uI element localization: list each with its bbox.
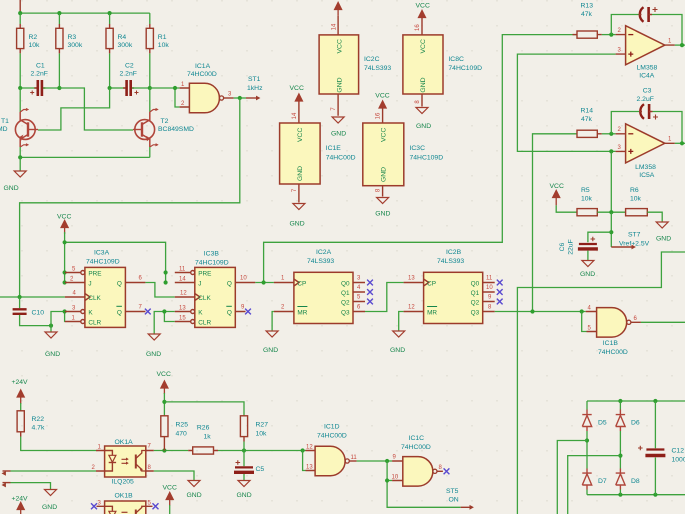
- junction rail-R4: [108, 11, 112, 15]
- IC power unit IC2C 74LS393: [319, 16, 359, 116]
- junction Q3-R14 riser: [530, 309, 534, 313]
- svg-text:MD: MD: [0, 126, 8, 133]
- wire IC5A output to edge: [675, 142, 685, 144]
- wire Vref drop to divider: [610, 151, 612, 212]
- svg-text:IC3B: IC3B: [204, 251, 220, 258]
- wire D8 to bottom rail: [619, 490, 621, 495]
- svg-text:D7: D7: [598, 478, 607, 485]
- svg-text:GND: GND: [375, 211, 390, 218]
- svg-text:11: 11: [179, 267, 186, 273]
- junction IC3A J: [63, 280, 67, 284]
- svg-text:300k: 300k: [68, 42, 83, 49]
- svg-text:74LS393: 74LS393: [437, 258, 464, 265]
- optocoupler OK1A ILQ205: [96, 446, 154, 477]
- svg-text:47k: 47k: [581, 11, 593, 18]
- wire top supply rail: [20, 12, 150, 14]
- no-connect IC3B pin9: [245, 309, 251, 315]
- svg-text:R27: R27: [256, 422, 269, 429]
- svg-text:GND: GND: [416, 123, 431, 130]
- svg-text:R6: R6: [630, 187, 639, 194]
- transistor T2 BC849SMD: [133, 108, 158, 147]
- connector pin ST5: [461, 506, 471, 508]
- wire C3 to IC5A output: [653, 112, 683, 143]
- svg-text:IC5A: IC5A: [639, 172, 655, 179]
- svg-text:IC1D: IC1D: [324, 423, 340, 430]
- wire R13 to IC4A pin2: [602, 34, 616, 36]
- wire T2 emitter down: [149, 147, 151, 157]
- op-amp IC5A LM358: [616, 124, 675, 163]
- wire D5 to mid: [586, 431, 588, 469]
- svg-text:13: 13: [408, 276, 415, 282]
- power flag VCC IC2C: [335, 3, 342, 16]
- nand gate IC1C 74HC00D: [392, 457, 443, 487]
- ground left edge: [45, 490, 57, 496]
- svg-text:ST7: ST7: [628, 232, 641, 239]
- wire OK1A pin7 to R26: [154, 450, 188, 452]
- junction emitter-gnd: [18, 155, 22, 159]
- no-connect IC2A Q0: [367, 280, 373, 286]
- ground IC3C: [377, 198, 389, 204]
- svg-text:ON: ON: [449, 497, 459, 504]
- wire lower net riser to right edge: [517, 252, 685, 514]
- svg-text:300k: 300k: [118, 42, 133, 49]
- svg-text:VCC: VCC: [297, 128, 304, 142]
- junction R27 bottom: [242, 448, 246, 452]
- wire to gnd left: [11, 483, 51, 489]
- svg-text:VCC: VCC: [381, 128, 388, 142]
- svg-text:D8: D8: [631, 478, 640, 485]
- svg-text:PRE: PRE: [88, 270, 101, 277]
- svg-text:+24V: +24V: [12, 496, 29, 503]
- svg-text:11: 11: [351, 455, 358, 461]
- wire IC2A Q3 to IC2B CP: [365, 283, 404, 312]
- svg-text:10: 10: [486, 285, 493, 291]
- wire R4 to C2 node: [109, 53, 111, 88]
- svg-text:C2: C2: [125, 63, 134, 70]
- pin stub from offscreen top: [19, 0, 21, 12]
- wire R5 to R6: [597, 211, 625, 213]
- wire R26 to IC1D: [218, 450, 306, 452]
- junction C2-R4: [108, 86, 112, 90]
- junction IC1C in2: [385, 478, 389, 482]
- svg-text:Q0: Q0: [341, 280, 350, 287]
- svg-text:16: 16: [376, 112, 382, 119]
- svg-text:Q2: Q2: [471, 299, 480, 306]
- svg-text:CP: CP: [297, 280, 306, 287]
- svg-text:VCC: VCC: [550, 183, 564, 190]
- svg-text:GND: GND: [4, 185, 19, 192]
- junction IC3A PRE: [63, 270, 67, 274]
- optocoupler OK1B ILQ205: [97, 501, 153, 514]
- svg-text:10k: 10k: [29, 42, 41, 49]
- no-connect IC2A Q1: [367, 289, 373, 295]
- svg-text:2.2uF: 2.2uF: [637, 96, 654, 103]
- svg-text:VCC: VCC: [336, 39, 343, 53]
- wire VCC node R25/R27: [163, 393, 165, 416]
- wire gnd drop IC3A: [50, 326, 52, 332]
- connector pin left edge lower: [2, 483, 6, 488]
- wire bridge top rail: [587, 400, 685, 402]
- svg-text:GND: GND: [390, 347, 405, 354]
- junction IC3B J: [164, 280, 168, 284]
- resistor R5: [577, 209, 597, 216]
- svg-text:IC1B: IC1B: [603, 340, 619, 347]
- wire noninverting tie IC4A/IC5A: [517, 54, 615, 151]
- counter IC2A 74LS393: [274, 272, 365, 323]
- diode D7: [582, 469, 591, 490]
- svg-text:R2: R2: [29, 34, 38, 41]
- junction top rail C12: [653, 399, 657, 403]
- svg-text:C3: C3: [643, 88, 652, 95]
- capacitor C12 1000uF: [638, 446, 665, 456]
- svg-text:VCC: VCC: [57, 214, 71, 221]
- wire VCC to PRE/J nets: [64, 232, 66, 283]
- svg-text:IC3A: IC3A: [94, 250, 110, 257]
- capacitor C3 2.2uF: [639, 104, 658, 120]
- IC power unit IC1E 74HC00D: [280, 101, 321, 203]
- resistor R27 10k: [240, 416, 247, 442]
- junction IC5A pin3: [609, 149, 613, 153]
- wire IC1B output to edge: [641, 321, 685, 323]
- resistor R22: [17, 411, 24, 437]
- svg-text:GND: GND: [45, 351, 60, 358]
- svg-text:Q1: Q1: [341, 290, 350, 297]
- svg-text:10: 10: [240, 276, 247, 282]
- svg-text:+24V: +24V: [12, 379, 29, 386]
- resistor R1: [146, 24, 153, 53]
- svg-text:12: 12: [306, 444, 313, 450]
- svg-text:74HC00D: 74HC00D: [326, 154, 356, 161]
- svg-text:BC849SMD: BC849SMD: [158, 126, 194, 133]
- svg-text:2.2nF: 2.2nF: [31, 71, 48, 78]
- junction divider mid: [609, 210, 613, 214]
- wire R22 to OK1A pin1: [21, 437, 96, 451]
- svg-text:LM358: LM358: [635, 164, 656, 171]
- wire C1 row left: [20, 87, 36, 89]
- svg-text:R22: R22: [32, 416, 45, 423]
- svg-text:ILQ205: ILQ205: [112, 479, 135, 486]
- no-connect IC1C pin8: [444, 468, 450, 474]
- svg-text:GND: GND: [420, 77, 427, 92]
- capacitor C1 2.2nF: [30, 80, 45, 96]
- junction IC1C in1: [385, 459, 389, 463]
- wire IC2B MR to gnd: [399, 312, 404, 331]
- junction bottom rail D8: [618, 493, 622, 497]
- wire R3 to C1 node: [58, 53, 60, 88]
- wire riser Q3 node to R14: [533, 134, 578, 312]
- resistor R4: [106, 24, 113, 53]
- wire input tie vertical: [175, 88, 180, 107]
- svg-text:T2: T2: [161, 118, 169, 125]
- op-amp IC4A LM358: [616, 26, 675, 65]
- svg-text:C1: C1: [36, 63, 45, 70]
- wire D6 column top: [619, 401, 621, 410]
- capacitor C5: [234, 460, 254, 472]
- svg-text:Q: Q: [227, 309, 232, 316]
- resistor R25 470: [161, 416, 168, 451]
- svg-text:LM358: LM358: [637, 65, 658, 72]
- svg-text:Q2: Q2: [341, 299, 350, 306]
- wire D7 to bottom rail: [586, 490, 588, 495]
- IC power unit IC8C 74HC109D: [403, 18, 443, 107]
- connector pin ST7 Vref: [611, 246, 632, 248]
- svg-text:74HC00D: 74HC00D: [187, 71, 217, 78]
- diode D6: [616, 410, 625, 432]
- svg-text:74HC109D: 74HC109D: [410, 154, 444, 161]
- wire C2 row right: [132, 87, 150, 89]
- ground OK1A: [188, 481, 200, 487]
- junction VCC-R27 branch: [162, 400, 166, 404]
- svg-text:IC3C: IC3C: [410, 145, 426, 152]
- wire IC3B Q to IC2A CP: [255, 282, 274, 284]
- junction IC4A pin2: [609, 33, 613, 37]
- junction VCC node: [63, 240, 67, 244]
- junction top rail D6: [618, 399, 622, 403]
- wire branch to R27: [164, 402, 244, 416]
- svg-text:CP: CP: [427, 280, 436, 287]
- svg-text:VCC: VCC: [157, 371, 171, 378]
- svg-text:D6: D6: [631, 420, 640, 427]
- wire D6 to mid: [619, 431, 621, 469]
- svg-text:10: 10: [392, 474, 399, 480]
- svg-text:T1: T1: [1, 118, 9, 125]
- svg-text:13: 13: [179, 306, 186, 312]
- ground multivibrator: [14, 171, 26, 177]
- svg-text:14: 14: [292, 112, 298, 119]
- svg-text:CLK: CLK: [198, 295, 211, 302]
- svg-text:VCC: VCC: [375, 92, 389, 99]
- svg-text:Q3: Q3: [471, 309, 480, 316]
- junction IC1B inputs: [580, 309, 584, 313]
- svg-text:R5: R5: [581, 187, 590, 194]
- junction IC5A pin2: [609, 132, 613, 136]
- resistor R26 1k: [188, 447, 218, 454]
- wire T1 collector: [19, 88, 21, 112]
- svg-text:VCC: VCC: [420, 39, 427, 53]
- ground IC8C: [416, 108, 428, 114]
- nand gate IC1D 74HC00D: [306, 446, 357, 476]
- svg-text:K: K: [88, 309, 93, 316]
- svg-text:13: 13: [306, 464, 313, 470]
- resistor R6: [626, 209, 648, 216]
- no-connect OK1B right: [153, 503, 159, 509]
- junction C2-R1: [148, 86, 152, 90]
- op-amp gate IC1A 74HC00D: [180, 83, 234, 113]
- wire C2 node to IC1A inputs: [150, 87, 180, 89]
- wire Vref to C6: [588, 232, 611, 242]
- resistor R2: [17, 24, 24, 53]
- ground C5: [238, 481, 250, 487]
- svg-text:J: J: [88, 280, 91, 287]
- ground IC1E: [293, 204, 305, 210]
- diode D5: [582, 410, 591, 432]
- wire K/CLR tie IC3A: [51, 312, 65, 326]
- ground IC3A: [45, 332, 57, 338]
- wire IC2B Q3 to IC1B: [495, 311, 586, 313]
- svg-text:Q: Q: [227, 280, 232, 287]
- wire cross-couple C1right to T2 base: [59, 88, 133, 130]
- no-connect IC2A Q2: [367, 299, 373, 305]
- svg-text:74HC109D: 74HC109D: [86, 259, 120, 266]
- svg-text:470: 470: [176, 431, 188, 438]
- wire R4 column: [109, 13, 111, 24]
- svg-text:J: J: [198, 280, 201, 287]
- junction D5-D7 mid: [585, 438, 589, 442]
- wire cross-couple C2left to T1 base: [38, 88, 110, 130]
- no-connect IC2B Q0: [497, 280, 503, 286]
- flip-flop IC3B 74HC109D: [175, 267, 256, 328]
- svg-text:GND: GND: [146, 351, 161, 358]
- wire IC3A Q to IC3B CLK: [145, 283, 174, 298]
- svg-text:74HC00D: 74HC00D: [598, 349, 628, 356]
- wire IC1C input tie and ST5 run: [387, 461, 461, 507]
- svg-text:IC4A: IC4A: [639, 73, 655, 80]
- wire C6 to gnd: [587, 251, 589, 260]
- wire VCC to R5: [556, 205, 577, 212]
- svg-text:Q3: Q3: [341, 309, 350, 316]
- svg-text:10k: 10k: [581, 196, 593, 203]
- wire C12 to bottom rail: [654, 458, 656, 495]
- wire IC1D out to IC1C: [357, 460, 393, 462]
- svg-text:ST1: ST1: [248, 76, 261, 83]
- svg-text:C12: C12: [672, 448, 685, 455]
- wire VCC OK1B stem: [169, 505, 171, 514]
- junction C10-GND-K: [49, 324, 53, 328]
- junction IC1D inputs: [301, 448, 305, 452]
- wire gnd drop: [19, 157, 21, 170]
- svg-text:R26: R26: [197, 424, 210, 431]
- ground C6: [582, 261, 594, 267]
- svg-text:74LS393: 74LS393: [364, 65, 391, 72]
- wire C12 column top: [654, 401, 656, 448]
- wire R14 to IC5A pin2: [602, 133, 616, 135]
- junction IC5A output: [680, 141, 684, 145]
- svg-text:Q: Q: [117, 280, 122, 287]
- svg-text:PRE: PRE: [198, 270, 211, 277]
- svg-text:10k: 10k: [158, 42, 170, 49]
- svg-text:1k: 1k: [204, 433, 212, 440]
- junction CP riser: [262, 280, 266, 284]
- ground IC2C: [332, 117, 344, 123]
- wire R1 column: [149, 13, 151, 24]
- diode D8: [616, 469, 625, 490]
- svg-text:C5: C5: [256, 466, 265, 473]
- svg-text:2.2nF: 2.2nF: [120, 71, 137, 78]
- wire IC1A output: [234, 97, 246, 99]
- wire Vref node down to label: [610, 212, 612, 247]
- ground IC3B: [148, 334, 160, 340]
- svg-text:R1: R1: [158, 34, 167, 41]
- svg-text:74HC00D: 74HC00D: [401, 444, 431, 451]
- wire IC2A MR to gnd: [272, 312, 274, 331]
- no-connect IC3A pin7: [145, 309, 151, 315]
- wire cap to IC4A output: [652, 15, 682, 46]
- svg-text:Vref+2.5V: Vref+2.5V: [619, 240, 650, 247]
- counter IC2B 74LS393: [404, 272, 495, 323]
- wire emitter rail: [20, 156, 150, 158]
- svg-text:GND: GND: [381, 167, 388, 182]
- junction rail-R3: [57, 11, 61, 15]
- junction output-CLK: [238, 96, 242, 100]
- wire C2 row left: [110, 87, 126, 89]
- no-connect OK1B left: [91, 503, 97, 509]
- junction C1-R2: [18, 86, 22, 90]
- no-connect IC2B Q2: [497, 299, 503, 305]
- svg-text:Q: Q: [117, 309, 122, 316]
- svg-text:GND: GND: [297, 166, 304, 181]
- svg-text:16: 16: [415, 24, 421, 31]
- junction D6-D8 mid: [618, 454, 622, 458]
- svg-text:1kHz: 1kHz: [247, 85, 263, 92]
- wire T2 collector: [149, 88, 151, 112]
- svg-text:74LS393: 74LS393: [307, 258, 334, 265]
- wire to OK1A pin2: [11, 470, 97, 472]
- junction IC3B PRE: [164, 270, 168, 274]
- svg-text:10k: 10k: [256, 431, 268, 438]
- flip-flop IC3A 74HC109D: [65, 267, 145, 328]
- svg-text:IC1C: IC1C: [409, 435, 425, 442]
- capacitor C10: [13, 297, 51, 326]
- junction rail-R2: [18, 11, 22, 15]
- svg-text:47k: 47k: [581, 116, 593, 123]
- wire D5 column top: [586, 401, 588, 410]
- svg-text:VCC: VCC: [163, 485, 177, 492]
- svg-text:IC1A: IC1A: [195, 63, 211, 70]
- svg-text:12: 12: [408, 305, 415, 311]
- junction IC3A K: [63, 309, 67, 313]
- wire OK1A pin8 to gnd: [154, 471, 194, 480]
- svg-text:GND: GND: [580, 271, 595, 278]
- wire AC input 1: [557, 441, 587, 514]
- wire R3 column: [58, 13, 60, 24]
- svg-text:4.7k: 4.7k: [32, 425, 45, 432]
- wire IC1D input tie: [303, 451, 306, 471]
- svg-text:11: 11: [486, 276, 493, 282]
- svg-text:IC2B: IC2B: [446, 249, 462, 256]
- wire C1 row right: [43, 87, 59, 89]
- ground R6: [656, 222, 668, 228]
- svg-text:GND: GND: [331, 131, 346, 138]
- svg-text:K: K: [198, 309, 203, 316]
- ground IC2A: [266, 331, 278, 337]
- svg-text:74HC109D: 74HC109D: [448, 65, 482, 72]
- junction C1-R3: [57, 86, 61, 90]
- svg-text:OK1B: OK1B: [115, 493, 134, 500]
- svg-text:Q1: Q1: [471, 290, 480, 297]
- wire +24V to R22: [20, 403, 22, 411]
- wire CLK row to IC3A: [0, 296, 65, 298]
- capacitor feedback IC4A: [639, 7, 658, 22]
- svg-text:R14: R14: [581, 108, 594, 115]
- svg-text:GND: GND: [237, 492, 252, 499]
- svg-text:74HC00D: 74HC00D: [317, 432, 347, 439]
- no-connect IC2B Q1: [497, 289, 503, 295]
- wire riser CP node to R13: [264, 35, 577, 283]
- svg-text:MR: MR: [427, 309, 437, 316]
- capacitor C6 22uF: [578, 237, 598, 249]
- svg-text:Q0: Q0: [471, 280, 480, 287]
- svg-text:R3: R3: [68, 34, 77, 41]
- svg-text:IC8C: IC8C: [448, 56, 464, 63]
- svg-text:D5: D5: [598, 420, 607, 427]
- wire IC5A feedback top: [611, 112, 639, 134]
- svg-text:IC2C: IC2C: [364, 56, 380, 63]
- junction IC4A output: [680, 43, 684, 47]
- svg-text:GND: GND: [263, 347, 278, 354]
- svg-text:GND: GND: [290, 221, 305, 228]
- junction CLK-C10: [18, 295, 22, 299]
- junction Vref-C6: [609, 230, 613, 234]
